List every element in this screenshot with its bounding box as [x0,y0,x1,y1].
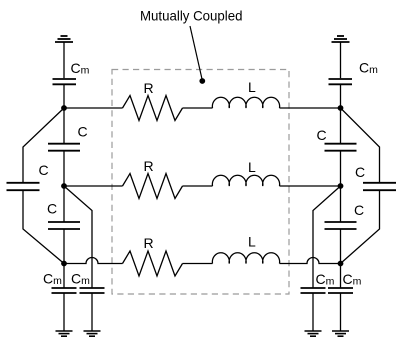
inductor L3 [212,253,279,264]
svg-text:C: C [317,127,327,143]
svg-text:Mutually Coupled: Mutually Coupled [140,8,243,24]
svg-text:R: R [144,80,154,96]
ground top-right [332,36,350,42]
arrow leader line [190,26,202,79]
node C junction dot [61,261,67,267]
wire Cm to node A [63,85,65,109]
resistor R1 [123,96,183,121]
wire row3 mid: R3 to L3 [183,263,213,265]
wire row2 right: L2 to node B' [280,185,341,187]
wire row3 right with hop over Cm stub [280,258,341,264]
capacitor C (B-C left) [48,222,80,229]
ground bottom-left inner [56,331,73,336]
svg-text:R: R [144,235,154,251]
capacitor C (A-B left) [48,144,80,151]
wire row1 right: L1 to node A' [280,107,341,109]
node A junction dot [61,105,67,111]
inductor L2 [212,175,279,186]
wire row1 mid: R1 to L1 [183,107,213,109]
wire Cm stub to ground [91,293,93,331]
wire row2 mid: R2 to L2 [183,185,213,187]
wire diagonal node A' to outer cap right [341,108,380,182]
ground bottom-right inner [332,331,349,336]
svg-text:R: R [144,158,154,174]
wire row2 left: node B to R2 [64,185,123,187]
capacitor Cm bottom-left inner [52,288,77,293]
capacitor C (B'-C' right) [325,222,357,229]
capacitor Cm bottom-right outer [301,288,326,293]
svg-text:C: C [78,124,88,140]
svg-text:C: C [39,162,49,178]
svg-text:L: L [248,234,256,250]
wire ground to Cm top-left [63,42,65,78]
svg-text:C: C [354,202,364,218]
wire cap C to node B' [340,151,342,186]
wire Cm to ground bottom-right [340,293,342,331]
wire node C to Cm bottom-left [63,264,65,288]
wire node B' to cap C (B'-C') [340,186,342,222]
inductor L1 [212,97,279,108]
svg-text:C: C [355,164,365,180]
wire Cm to node A' [340,85,342,109]
capacitor C (A'-B' right) [325,144,357,151]
svg-text:L: L [248,159,256,175]
resistor R2 [123,174,183,199]
wire diagonal node A to outer cap left [23,108,64,182]
wire Cm to ground bottom-left [63,293,65,331]
node B' junction dot [338,183,344,189]
wire row1 left: node A to R1 [64,107,123,109]
ground top-left [55,36,73,42]
wire outer cap right to node C' [341,191,380,264]
ground bottom-right outer [305,331,322,336]
wire cap C to node C [63,229,65,263]
node C' junction dot [338,261,344,267]
resistor R3 [123,251,183,276]
capacitor Cm bottom-left outer [80,288,105,293]
wire node A to cap C (A-B) [63,108,65,143]
capacitor C outer-right [363,183,396,190]
capacitor Cm bottom-right inner [328,288,353,293]
wire diagonal node B to Cm stub left [64,186,92,288]
node A' junction dot [338,105,344,111]
capacitor Cm top-right [329,79,353,84]
wire cap C to node B [63,151,65,186]
wire ground to Cm top-right [340,42,342,78]
wire cap C to node C' [340,229,342,263]
wire node C' to Cm bottom-right [340,264,342,288]
capacitor C outer-left [7,183,40,190]
arrow end dot [199,78,205,84]
wire row3 left with hop over Cm stub [64,258,123,264]
wire Cm stub to ground [312,293,314,331]
ground bottom-left outer [84,331,101,336]
wire diagonal node B' to Cm stub right [313,186,341,288]
wire node B to cap C (B-C) [63,186,65,222]
wire node A' to cap C (A'-B') [340,108,342,143]
wire outer cap left to node C [23,191,64,264]
capacitor Cm top-left [53,79,77,84]
dashed mutual-coupling box [112,70,289,295]
node B junction dot [61,183,67,189]
svg-text:L: L [248,79,256,95]
svg-text:C: C [47,201,57,217]
